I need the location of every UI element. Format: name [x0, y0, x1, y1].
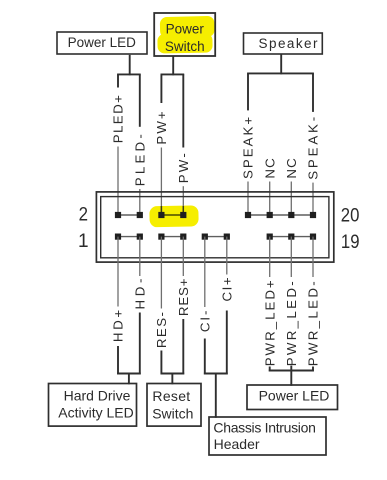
svg-text:1: 1 — [78, 231, 89, 252]
svg-text:NC: NC — [262, 158, 277, 179]
wire: HD+ drop — [117, 346, 119, 374]
wire: Power Switch elbow — [161, 73, 185, 75]
pin 1 HD+ — [115, 234, 121, 240]
wire: RES stub to box — [171, 374, 173, 385]
wire: PW- over highlight — [182, 206, 184, 212]
wire: CI+ drop — [226, 311, 228, 375]
wire: pin 11 to CI+ — [226, 237, 228, 275]
svg-text:PW-: PW- — [176, 153, 191, 183]
wire: Power LED box stub — [129, 55, 131, 76]
pin 15 PWR_LED+ — [267, 234, 273, 240]
wire: PW- to pin 8 — [182, 186, 184, 215]
pin 16 NC — [267, 212, 273, 218]
svg-text:Power LED: Power LED — [259, 387, 330, 403]
pin 14 SPEAK+ — [245, 212, 251, 218]
pin 20 SPEAK- — [310, 212, 316, 218]
svg-text:20: 20 — [341, 206, 360, 227]
pin 9 CI- — [202, 234, 208, 240]
wire: pin5-pin7 link — [161, 236, 183, 238]
wire: SPEAK+ to pin 14 — [247, 182, 249, 216]
pin 19 PWR_LED- — [310, 234, 316, 240]
pin 2 PLED+ — [115, 212, 121, 218]
wire: pins 15-19 link — [270, 236, 313, 238]
wire: SPEAK- to pin 20 — [312, 183, 314, 215]
wire: drop to SPEAK- label — [312, 73, 314, 112]
svg-text:RES-: RES- — [154, 312, 169, 348]
wire: PWR_LED+ drop — [269, 367, 271, 372]
wire: pin9-pin11 link — [205, 236, 227, 238]
pin 4 PLED- — [137, 212, 143, 218]
header outer rectangle — [96, 192, 333, 262]
wire: HD- drop — [139, 313, 141, 375]
wire: HD stub to box — [128, 374, 130, 385]
svg-text:SPEAK+: SPEAK+ — [241, 117, 256, 179]
wire: pin 9 to CI- — [204, 237, 206, 307]
box: Hard Drive Activity LED — [49, 384, 137, 427]
svg-text:19: 19 — [341, 232, 360, 253]
wire: pin 5 to RES- — [160, 237, 162, 309]
svg-text:NC: NC — [284, 158, 299, 179]
wire: pin 7 to RES+ — [182, 237, 184, 276]
box: Reset Switch — [147, 384, 201, 427]
svg-text:Hard Drive: Hard Drive — [64, 388, 131, 404]
svg-text:Speaker: Speaker — [259, 36, 318, 51]
wire: NC to pin 18 — [290, 182, 292, 216]
svg-text:Switch: Switch — [152, 405, 193, 421]
svg-text:HD+: HD+ — [111, 310, 126, 342]
wire: pins 14-20 link — [248, 214, 313, 216]
svg-text:Switch: Switch — [165, 39, 205, 54]
svg-text:CI+: CI+ — [219, 277, 234, 301]
wire: drop to PW- label — [182, 74, 184, 147]
svg-text:HD-: HD- — [132, 279, 147, 310]
box: Chassis Intrusion Header — [209, 417, 326, 455]
wire: PWR_LED bracket — [269, 370, 314, 372]
yellow highlight over PW+/PW- pins — [149, 205, 198, 227]
svg-text:PWR_LED+: PWR_LED+ — [262, 280, 277, 366]
wire: Power LED elbow — [117, 73, 141, 75]
wire: drop to PLED- label — [139, 74, 141, 126]
svg-text:Header: Header — [214, 436, 260, 452]
pin 18 NC — [288, 212, 294, 218]
wire: PLED- to pin 4 — [139, 189, 141, 215]
svg-text:RES+: RES+ — [176, 278, 191, 316]
svg-text:Reset: Reset — [152, 388, 190, 404]
box: Power LED (top) — [57, 32, 147, 54]
svg-text:SPEAK-: SPEAK- — [306, 117, 321, 180]
pin 17 PWR_LED- — [288, 234, 294, 240]
wire: RES bracket — [161, 373, 185, 375]
pin 3 HD- — [137, 234, 143, 240]
svg-text:PWR_LED-: PWR_LED- — [284, 281, 299, 366]
box: Power LED (bottom) — [247, 385, 338, 410]
wire: pin2-pin4 link — [118, 214, 140, 216]
wire: NC to pin 16 — [269, 182, 271, 216]
svg-text:Activity LED: Activity LED — [58, 405, 133, 421]
wire: CI bracket — [204, 373, 228, 375]
wire: pin1-pin3 link — [118, 236, 140, 238]
pin 8 PW- — [180, 212, 186, 218]
wire: drop to SPEAK+ label — [247, 73, 249, 110]
wire: Speaker box stub — [280, 54, 282, 74]
wire: PWR_LED- drop — [312, 367, 314, 372]
wire: pin 1 to HD+ — [117, 237, 119, 307]
highlight on Power Switch box — [157, 16, 214, 54]
wire: pin 3 to HD- — [139, 237, 141, 276]
svg-text:Power: Power — [166, 22, 205, 37]
box: Power Switch — [154, 13, 215, 56]
svg-text:2: 2 — [79, 204, 88, 225]
header inner rectangle — [101, 197, 329, 258]
wire: CI stub to box — [215, 374, 217, 418]
pin 7 RES+ — [180, 234, 186, 240]
svg-text:PW+: PW+ — [154, 111, 169, 145]
svg-text:PWR_LED-: PWR_LED- — [306, 281, 321, 366]
wire: PLED+ to pin 2 — [117, 147, 119, 216]
wire: HD bracket — [117, 373, 141, 375]
svg-text:PLED-: PLED- — [132, 134, 147, 186]
wire: PW+ to pin 6 — [160, 148, 162, 216]
wire: pin 19 to PWR_LED- — [312, 237, 314, 277]
box: Speaker — [244, 33, 323, 54]
wire: drop to PLED+ label — [117, 74, 119, 87]
wire: Speaker elbow — [247, 72, 314, 74]
svg-text:CI-: CI- — [197, 311, 212, 333]
wire: pin 17 to PWR_LED- — [290, 237, 292, 277]
wire: drop to PW+ label — [160, 74, 162, 103]
svg-text:PLED+: PLED+ — [111, 95, 126, 143]
wire: pin6-pin8 link (over highlight) — [161, 214, 183, 216]
svg-text:Power LED: Power LED — [68, 35, 137, 50]
wire: PW+ over highlight — [160, 206, 162, 212]
wire: CI- drop — [204, 339, 206, 375]
wire: PWR_LED stub to box — [290, 366, 292, 386]
wire: pin 15 to PWR_LED+ — [269, 237, 271, 277]
pin 6 PW+ — [158, 212, 164, 218]
pin 5 RES- — [158, 234, 164, 240]
wire: RES- drop — [160, 351, 162, 375]
wire: RES+ drop — [182, 319, 184, 374]
wire: Power Switch box stub — [172, 56, 174, 75]
svg-text:Chassis Intrusion: Chassis Intrusion — [213, 419, 316, 435]
pin 11 CI+ — [224, 234, 230, 240]
